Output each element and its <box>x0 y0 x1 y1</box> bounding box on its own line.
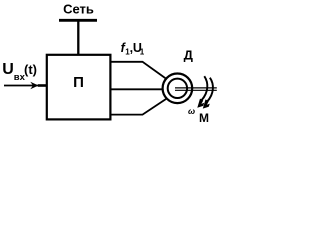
svg-text:Uвх(t): Uвх(t) <box>2 61 37 83</box>
svg-text:f1,U1: f1,U1 <box>121 41 145 57</box>
svg-text:ω: ω <box>188 106 195 116</box>
wire phase 3 (bottom) <box>111 99 166 115</box>
wire phase 1 (top) <box>111 62 166 79</box>
input arrowhead <box>30 82 38 89</box>
wire from bus to converter <box>77 20 79 54</box>
motor inner circle <box>168 79 187 98</box>
arrowhead M <box>203 99 210 108</box>
arrowhead omega <box>197 99 204 108</box>
svg-text:Д: Д <box>184 48 194 63</box>
input wire <box>4 85 46 87</box>
svg-text:Сеть: Сеть <box>63 2 94 17</box>
rotation arc omega <box>202 76 208 100</box>
shaft line lower <box>175 89 217 91</box>
motor Д outer circle <box>163 74 193 104</box>
svg-text:П: П <box>73 74 84 91</box>
svg-text:М: М <box>199 111 209 125</box>
input wire thick segment <box>38 84 46 87</box>
converter block П <box>47 55 111 120</box>
mains bus bar <box>59 19 97 22</box>
shaft line upper <box>175 87 217 89</box>
rotation arc M <box>207 78 213 102</box>
wire phase 2 (middle) <box>111 88 163 90</box>
